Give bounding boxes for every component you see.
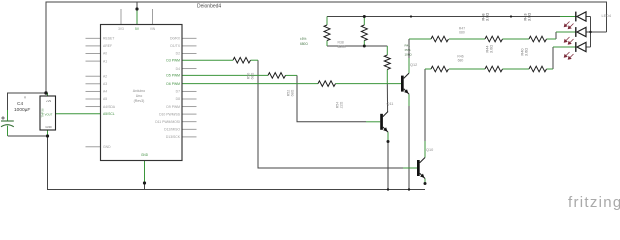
svg-text:GND: GND	[45, 125, 51, 129]
svg-text:Uno: Uno	[136, 94, 143, 98]
svg-text:AREF: AREF	[103, 44, 112, 48]
svg-text:D6 PWM: D6 PWM	[166, 82, 180, 86]
svg-text:±5%: ±5%	[405, 48, 411, 52]
svg-text:VOUT: VOUT	[45, 113, 53, 117]
svg-text:A3: A3	[103, 82, 107, 86]
svg-text:D13/SCK: D13/SCK	[166, 135, 181, 139]
svg-text:D5 PWM: D5 PWM	[166, 74, 180, 78]
svg-text:3.0Ω: 3.0Ω	[528, 13, 532, 21]
svg-text:10kΩ: 10kΩ	[405, 53, 413, 57]
svg-text:±5%: ±5%	[300, 37, 307, 41]
svg-text:D1/TX: D1/TX	[170, 44, 180, 48]
svg-text:LED4: LED4	[602, 14, 612, 18]
svg-text:D7: D7	[176, 90, 180, 94]
svg-text:(Rev3): (Rev3)	[134, 99, 145, 103]
svg-text:3V3: 3V3	[118, 27, 124, 31]
svg-text:A4/SDA: A4/SDA	[103, 105, 116, 109]
svg-text:D2: D2	[176, 52, 180, 56]
svg-text:Deionbed4: Deionbed4	[197, 4, 221, 10]
svg-text:Q11: Q11	[387, 102, 394, 106]
svg-text:A5/SCL: A5/SCL	[103, 112, 115, 116]
svg-text:D10 PWM/SS: D10 PWM/SS	[159, 112, 181, 116]
svg-text:A4: A4	[103, 90, 107, 94]
svg-text:R41: R41	[405, 44, 411, 48]
svg-text:68Ω: 68Ω	[251, 72, 255, 79]
svg-text:D4: D4	[176, 67, 180, 71]
svg-text:Arduino: Arduino	[133, 89, 145, 93]
svg-text:1000µF: 1000µF	[14, 107, 30, 113]
svg-text:D11 PWM/MOSI: D11 PWM/MOSI	[155, 120, 180, 124]
svg-text:+VS: +VS	[46, 99, 51, 103]
svg-text:fritzing: fritzing	[568, 194, 620, 211]
svg-text:3.6Ω: 3.6Ω	[525, 48, 529, 56]
svg-text:680Ω: 680Ω	[338, 45, 347, 49]
svg-text:A2: A2	[103, 74, 107, 78]
svg-text:GND: GND	[103, 145, 111, 149]
svg-text:680: 680	[458, 59, 464, 63]
svg-text:A0: A0	[103, 52, 107, 56]
svg-text:GND: GND	[141, 153, 149, 157]
svg-text:D12/MISO: D12/MISO	[164, 128, 180, 132]
svg-text:A5: A5	[103, 97, 107, 101]
svg-text:RESET: RESET	[103, 37, 114, 41]
svg-text:3.0Ω: 3.0Ω	[486, 13, 490, 21]
svg-text:VIN: VIN	[150, 27, 156, 31]
svg-text:22Ω: 22Ω	[340, 101, 344, 108]
svg-text:D3 PWM: D3 PWM	[166, 58, 180, 62]
svg-text:R38: R38	[338, 41, 344, 45]
svg-text:C4: C4	[17, 101, 23, 107]
svg-text:680: 680	[459, 31, 465, 35]
svg-text:Q10: Q10	[426, 148, 433, 152]
svg-text:Q12: Q12	[410, 63, 417, 67]
svg-text:D0/RX: D0/RX	[170, 37, 181, 41]
svg-text:680Ω: 680Ω	[300, 42, 308, 46]
svg-text:A1: A1	[103, 59, 107, 63]
svg-text:D9 PWM: D9 PWM	[166, 105, 180, 109]
svg-text:68Ω: 68Ω	[291, 89, 295, 96]
svg-text:3.0Ω: 3.0Ω	[490, 45, 494, 53]
svg-text:D8: D8	[176, 97, 180, 101]
